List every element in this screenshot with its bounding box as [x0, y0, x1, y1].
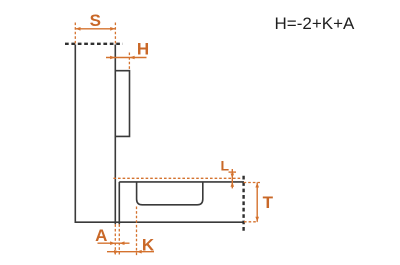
dimension A line [98, 242, 130, 244]
svg-text:H=-2+K+A: H=-2+K+A [275, 14, 356, 33]
svg-text:A: A [95, 226, 107, 245]
dimension L tick [229, 171, 237, 173]
dimension S line [75, 28, 115, 30]
dimension L arrows [231, 174, 235, 187]
cabinet side panel left edge [74, 45, 76, 223]
svg-text:S: S [90, 11, 101, 30]
dimension H line [106, 57, 147, 59]
cup edge extension line [136, 207, 138, 257]
right wall dashed line [242, 176, 244, 231]
dimension T line [256, 183, 258, 222]
svg-text:K: K [142, 235, 155, 254]
dimension A extension lines [115, 224, 119, 256]
cabinet side panel right edge [114, 45, 116, 225]
overlay reference dashed line [113, 177, 242, 179]
dimension H arrows [110, 56, 134, 60]
svg-text:H: H [137, 40, 149, 59]
dimension K line [107, 251, 154, 253]
dimension S arrows [75, 27, 115, 31]
dimension T arrows [255, 183, 259, 222]
door cross-section left edge [118, 182, 120, 224]
dimension S extension lines [75, 23, 115, 45]
svg-text:L: L [221, 158, 230, 174]
dimension A arrows [110, 241, 124, 245]
dimension T ticks [244, 183, 261, 222]
top wall dashed line [65, 43, 123, 45]
hinge cup slot [137, 182, 203, 205]
dimension H extension line [128, 53, 130, 71]
svg-text:T: T [263, 193, 274, 212]
dimension L line [231, 169, 233, 188]
dimension K arrows [114, 250, 142, 254]
bottom edge [75, 221, 243, 223]
door cross-section top edge [119, 181, 244, 183]
door top view rectangle [115, 71, 129, 137]
